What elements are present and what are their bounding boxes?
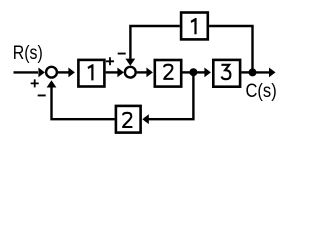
wire H1 left then down into S2 with arrow (129, 25, 180, 60)
wire S2 to block G2 with arrow (137, 71, 148, 73)
node plus sign at summing junction S1 (31, 79, 39, 87)
summing junction S2 (125, 67, 136, 78)
node minus sign at summing junction S1 (38, 95, 46, 97)
block H1 value 1 (181, 13, 208, 40)
summing junction S1 (46, 67, 57, 78)
wire output arrow to C(s) (253, 71, 270, 73)
svg-text:R(s): R(s) (13, 42, 43, 64)
wire bottom feedback: N1 down then left to block H2 with arrow (148, 72, 195, 120)
wire G1 to summing junction S2 with arrow (106, 71, 119, 73)
node minus sign at summing junction S2 (118, 53, 126, 55)
wire input arrow into summing junction S1 (14, 71, 39, 73)
wire G3 to takeoff node N2 (241, 71, 252, 73)
wire S1 to block G1 with arrow (58, 71, 70, 73)
wire H2 left then up into S1 with arrow (50, 87, 114, 121)
svg-text:C(s): C(s) (246, 80, 277, 102)
block G3 value 3 (213, 60, 240, 87)
wire N1 to block G3 with arrow (193, 71, 205, 73)
block H2 value 2 (116, 106, 141, 133)
node N1 junction dot (189, 68, 197, 76)
node plus sign at summing junction S2 (106, 57, 114, 65)
wire G2 to takeoff node N1 (183, 71, 194, 73)
wire top feedback: N2 up and left to block H1 (209, 25, 254, 73)
block G1 value 1 (78, 60, 104, 87)
node N2 junction dot (249, 68, 257, 76)
block G2 value 2 (155, 60, 181, 87)
